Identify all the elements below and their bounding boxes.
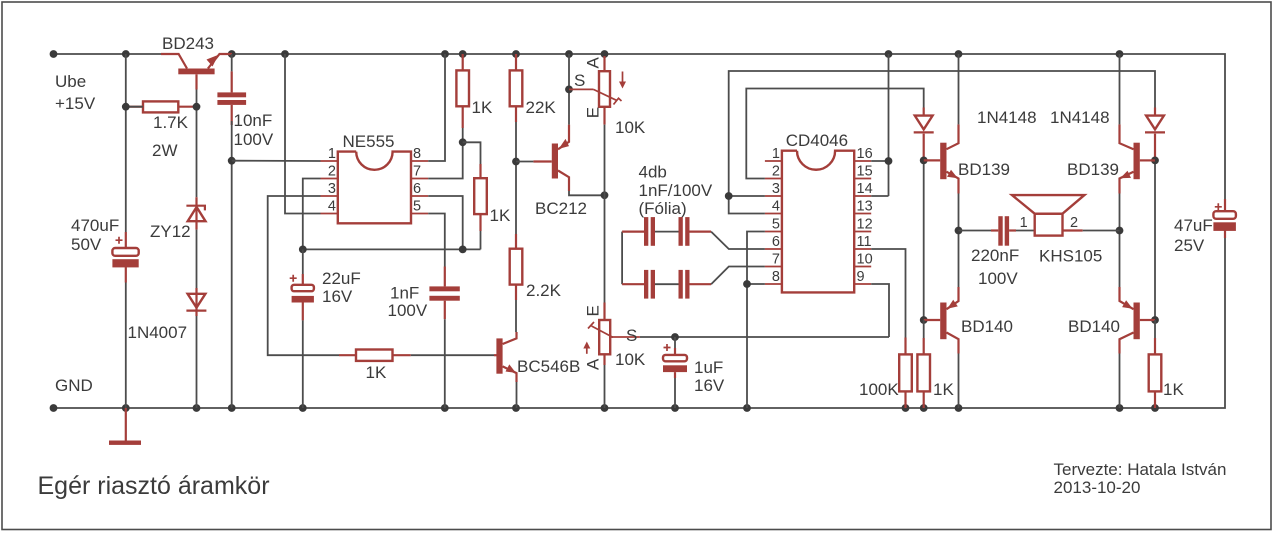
pin stubs NE555 left (1-4) <box>321 161 338 214</box>
svg-text:2013-10-20: 2013-10-20 <box>1054 478 1141 497</box>
junction node (125.8,408) <box>122 404 130 412</box>
transistor BD140 (right, PNP mirrored) <box>1068 287 1155 354</box>
junction node (516,54) <box>512 50 520 58</box>
wire: junction over to 1K-mid <box>463 142 481 164</box>
junction node (285,54) <box>281 50 289 58</box>
wire: wiper S to 1uF / CD4046 pin9 <box>640 336 889 338</box>
svg-text:100K: 100K <box>859 380 899 399</box>
svg-text:10: 10 <box>857 252 873 268</box>
node: S / 1uF junction <box>671 333 679 341</box>
wire: 10nF column down to bottom rail <box>231 121 233 408</box>
capacitor C (film, bottom-left of bank) <box>622 270 655 299</box>
svg-text:16V: 16V <box>322 287 353 306</box>
wire: pin6 down to threshold row <box>428 196 463 249</box>
svg-text:220nF: 220nF <box>971 246 1019 265</box>
wire: pin3 output to base resistor row <box>268 196 339 355</box>
node: right BD140 base junction <box>1151 316 1159 324</box>
wire: GND bottom rail <box>54 238 1226 408</box>
junction node (445,54) <box>441 50 449 58</box>
svg-text:NE555: NE555 <box>343 132 395 151</box>
svg-text:100V: 100V <box>388 301 428 320</box>
pin stubs CD4046 right (16-9) <box>854 161 871 284</box>
wire: left column x=125.8 <box>125 54 127 232</box>
transistor BD139 (left, NPN) <box>924 124 1010 193</box>
junction node (1119.5,54) <box>1116 50 1124 58</box>
svg-text:7: 7 <box>413 164 421 180</box>
wire: cap bank to CD4046 pin7 (diagonal) <box>711 267 765 285</box>
wire: pin4 up to +15V rail <box>285 54 321 214</box>
svg-text:3: 3 <box>772 181 780 197</box>
svg-text:470uF: 470uF <box>71 216 119 235</box>
svg-text:+15V: +15V <box>55 94 96 113</box>
node: pin3/pin4 junction <box>725 192 733 200</box>
wire: left base column down to BD140 base <box>923 160 925 320</box>
junction node (923.7,408) <box>920 404 928 412</box>
node: pin5/pin8 junction <box>743 280 751 288</box>
node: 1K / pin7 / 1K-mid junction <box>459 138 467 146</box>
potentiometer 10K (upper trimmer) <box>569 56 646 137</box>
svg-text:BD140: BD140 <box>1068 317 1120 336</box>
svg-text:1K: 1K <box>472 98 493 117</box>
svg-text:1N4007: 1N4007 <box>128 323 188 342</box>
resistor 1K (BC546B base) <box>339 350 411 383</box>
svg-text:E: E <box>584 107 603 118</box>
resistor 100K <box>859 338 912 409</box>
svg-text:1N4148: 1N4148 <box>1050 108 1110 127</box>
wire: CD4046 pin8 to that column <box>747 283 765 285</box>
svg-text:BD139: BD139 <box>958 160 1010 179</box>
capacitor 47uF 25V (electrolytic) <box>1174 199 1236 255</box>
junction node (1155,408) <box>1151 404 1159 412</box>
node: top rail junctions <box>50 50 58 58</box>
node: S-wiper junction <box>565 86 573 94</box>
junction node (231.7,408) <box>228 404 236 412</box>
svg-text:11: 11 <box>857 234 872 250</box>
svg-text:6: 6 <box>772 234 780 250</box>
diode 1N4148 (left) <box>914 108 1037 161</box>
wire: emitters column (left pair) <box>958 54 960 124</box>
svg-text:S: S <box>626 326 637 345</box>
svg-text:10K: 10K <box>615 118 646 137</box>
svg-text:47uF: 47uF <box>1174 216 1213 235</box>
junction node (231.7,54) <box>228 50 236 58</box>
junction node (604.5,408) <box>601 404 609 412</box>
svg-text:E: E <box>584 305 603 316</box>
junction node (196.5,408) <box>193 404 201 412</box>
capacitor 1uF 16V (electrolytic) <box>663 337 725 395</box>
node: right BD139 base junction <box>1151 157 1159 165</box>
svg-text:BD140: BD140 <box>961 317 1013 336</box>
svg-text:22K: 22K <box>526 98 557 117</box>
wire: cap bank to CD4046 pin6 (diagonal) <box>711 232 765 249</box>
wire: pin2 down to threshold node <box>303 179 321 250</box>
wire: CD4046 pin5 down to pin8 and bottom rail <box>747 232 765 409</box>
junction node (569,54) <box>565 50 573 58</box>
node: left BD139 base junction <box>920 157 928 165</box>
wire: base resistor to BC546B <box>411 354 494 356</box>
svg-text:S: S <box>574 71 585 90</box>
svg-text:22uF: 22uF <box>322 269 361 288</box>
resistor 1K (left pair) <box>917 320 954 408</box>
svg-text:100V: 100V <box>978 269 1018 288</box>
wire: CD4046 pins3+4 up and over to right 1N4148 <box>729 71 1155 196</box>
junction node (958.5,408) <box>955 404 963 412</box>
capacitor 10nF 100V <box>217 54 273 149</box>
resistor 2.2K <box>510 234 562 300</box>
svg-text:KHS105: KHS105 <box>1039 247 1102 266</box>
pin stubs CD4046 left (1-8) <box>765 161 782 284</box>
capacitor 220nF 100V (film) <box>971 216 1019 288</box>
svg-text:5: 5 <box>413 199 421 215</box>
svg-text:4db: 4db <box>639 163 667 182</box>
svg-text:2: 2 <box>1070 215 1078 231</box>
svg-text:1K: 1K <box>933 380 954 399</box>
junction node (905.5,408) <box>902 404 910 412</box>
junction node (516,408) <box>512 404 520 412</box>
wire: pin8 up to +15V rail <box>428 54 445 161</box>
node: BC212 collector / pot junction <box>601 191 609 199</box>
svg-text:13: 13 <box>857 199 873 215</box>
svg-text:14: 14 <box>857 181 873 197</box>
node: 22K / BC212 base junction <box>512 158 520 166</box>
svg-text:1K: 1K <box>490 206 511 225</box>
node: 1.7K left junction <box>122 103 130 111</box>
pin stubs NE555 right (8-5) <box>411 161 428 214</box>
junction node (888.5,54) <box>885 50 893 58</box>
capacitor 1nF 100V <box>388 267 460 321</box>
junction node (958.5,54) <box>955 50 963 58</box>
transistor BC212 (PNP) <box>516 125 587 218</box>
diode ZY12 (zener) <box>150 197 206 241</box>
node: bottom rail junctions <box>50 404 58 412</box>
transistor Q BC546B (NPN) <box>494 332 580 382</box>
svg-text:2W: 2W <box>152 141 178 160</box>
svg-text:6: 6 <box>413 181 421 197</box>
svg-text:2: 2 <box>328 164 336 180</box>
wire: pin5 down to 1nF <box>428 214 445 267</box>
resistor 1K (right) <box>1149 320 1185 408</box>
transistor BD243 (NPN pass transistor in top rail) <box>161 34 232 90</box>
junction node (675,408) <box>671 404 679 412</box>
svg-text:Egér riasztó áramkör: Egér riasztó áramkör <box>38 472 270 500</box>
diode 1N4007 <box>128 288 207 342</box>
svg-text:1: 1 <box>328 146 336 162</box>
wire: CD4046 pin14 to same column <box>871 195 888 197</box>
svg-text:25V: 25V <box>1174 236 1205 255</box>
svg-text:1N4148: 1N4148 <box>977 108 1037 127</box>
junction node (125.8,54) <box>122 50 130 58</box>
capacitor C (film, top-left of bank) <box>622 217 655 246</box>
svg-text:2.2K: 2.2K <box>526 281 562 300</box>
svg-text:1nF/100V: 1nF/100V <box>639 181 713 200</box>
svg-text:10nF: 10nF <box>234 111 273 130</box>
junction node (444.8,408) <box>441 404 449 412</box>
wire: CD4046 pin16 to +15V rail <box>871 160 888 162</box>
svg-text:1K: 1K <box>366 363 387 382</box>
wire: pin1 to 10nF/ground column <box>232 160 321 162</box>
wire: film cap bank left link <box>621 232 623 285</box>
svg-text:1: 1 <box>772 146 780 162</box>
svg-text:100V: 100V <box>234 130 274 149</box>
svg-text:5: 5 <box>772 217 780 233</box>
svg-text:BC546B: BC546B <box>517 357 580 376</box>
svg-text:16: 16 <box>857 146 873 162</box>
node: 1.7K right / base junction <box>193 103 201 111</box>
resistor 1.7K 2W <box>126 101 197 160</box>
capacitor 470uF 50V (electrolytic) <box>71 216 139 283</box>
capacitor C (film, bottom-right of bank) <box>655 270 711 299</box>
wire: pin7 up to 1K junction <box>428 142 463 178</box>
junction node (302.8,408) <box>299 404 307 412</box>
svg-text:7: 7 <box>772 252 780 268</box>
transistor BD139 (right, NPN mirrored) <box>1067 124 1155 193</box>
capacitor C (film, top-right of bank) <box>655 217 711 246</box>
IC U2 CD4046 (DIP-16 body) <box>782 131 854 292</box>
svg-text:1.7K: 1.7K <box>153 113 189 132</box>
svg-text:1: 1 <box>1020 215 1028 231</box>
junction node (1119.5,408) <box>1116 404 1124 412</box>
wire: CD4046 pin9 down to wiper row <box>871 284 889 337</box>
svg-text:3: 3 <box>328 181 336 197</box>
svg-text:ZY12: ZY12 <box>150 222 191 241</box>
wire: +15V top rail <box>54 53 162 55</box>
wire: BC212 emitter column to +15V <box>568 54 570 125</box>
svg-text:A: A <box>584 57 603 69</box>
wire: speaker row <box>959 230 992 232</box>
svg-text:8: 8 <box>413 146 421 162</box>
junction node (462.7,54) <box>459 50 467 58</box>
svg-text:BC212: BC212 <box>535 199 587 218</box>
svg-text:A: A <box>584 358 603 370</box>
svg-text:4: 4 <box>772 199 780 215</box>
node: right emitters / speaker junction <box>1116 227 1124 235</box>
svg-text:9: 9 <box>857 269 865 285</box>
transistor BD140 (left, PNP) <box>924 287 1013 354</box>
svg-text:12: 12 <box>857 217 873 233</box>
wire: emitters column (right pair) <box>1119 54 1121 124</box>
svg-text:1K: 1K <box>1163 380 1184 399</box>
node: left BD140 base junction <box>920 316 928 324</box>
svg-text:(Fólia): (Fólia) <box>639 199 687 218</box>
svg-text:Ube: Ube <box>55 72 86 91</box>
svg-text:50V: 50V <box>71 235 102 254</box>
junction node (747,408) <box>743 404 751 412</box>
node: pin2 / 22uF junction <box>299 246 307 254</box>
svg-text:BD139: BD139 <box>1067 160 1119 179</box>
wire: BC212 collector to pot chain <box>569 191 605 195</box>
speaker KHS105 <box>1012 195 1102 265</box>
wire: CD4046 pin11 down to 100K <box>871 249 905 338</box>
wire: BD243 base down to 1.7K / ZY12 node <box>196 90 198 198</box>
node: pin16/pin14 junction <box>885 157 893 165</box>
svg-text:1uF: 1uF <box>694 358 723 377</box>
potentiometer 10K (lower trimmer) <box>583 303 646 371</box>
svg-text:15: 15 <box>857 164 873 180</box>
svg-text:4: 4 <box>328 199 336 215</box>
resistor 1K (to +15V) <box>456 54 493 128</box>
diode 1N4148 (right) <box>1050 108 1165 161</box>
svg-text:8: 8 <box>772 269 780 285</box>
svg-text:2: 2 <box>772 164 780 180</box>
svg-text:1nF: 1nF <box>390 284 419 303</box>
node: pin6 junction <box>459 246 467 254</box>
ground symbol <box>109 408 141 445</box>
capacitor 22uF 16V (electrolytic) <box>290 249 361 320</box>
svg-text:CD4046: CD4046 <box>786 131 848 150</box>
svg-text:BD243: BD243 <box>162 34 214 53</box>
wire: threshold row pin2-pin6 <box>303 248 481 250</box>
svg-text:GND: GND <box>55 376 93 395</box>
resistor 1K (discharge, middle) <box>474 164 511 231</box>
svg-text:10K: 10K <box>615 350 646 369</box>
junction node (604.5,54) <box>601 50 609 58</box>
node: left emitters / speaker junction <box>955 227 963 235</box>
svg-text:16V: 16V <box>694 376 725 395</box>
resistor 22K <box>510 54 557 122</box>
node: 10nF / NE555 pin1 junction <box>228 157 236 165</box>
op-amp/timer U1 NE555 (DIP-8 body) <box>338 132 411 223</box>
svg-text:Tervezte: Hatala István: Tervezte: Hatala István <box>1054 460 1227 479</box>
wire: CD4046 pin2 up and over to left 1N4148 <box>746 89 923 179</box>
